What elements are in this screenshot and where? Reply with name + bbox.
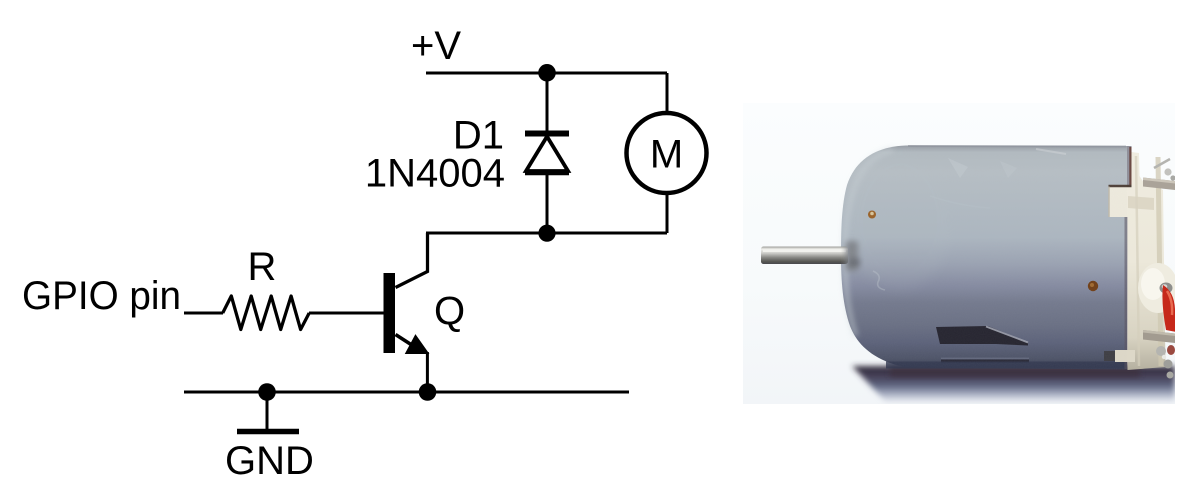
junction: emitter / ground xyxy=(419,383,437,401)
white plastic end cap xyxy=(1109,152,1166,370)
junction: +V / diode node xyxy=(538,64,556,82)
diode D1 xyxy=(525,134,569,174)
photo shadow under motor xyxy=(852,366,1175,402)
svg-text:M: M xyxy=(650,133,683,177)
solder blob top xyxy=(1164,168,1171,175)
can top crimp tab xyxy=(1127,146,1132,187)
svg-text:GPIO pin: GPIO pin xyxy=(22,274,181,318)
svg-text:R: R xyxy=(248,245,277,289)
ground xyxy=(237,392,299,432)
wire: +V rail xyxy=(426,72,667,75)
face rim highlight xyxy=(845,150,893,336)
scuffs / scratches on can xyxy=(873,149,1066,290)
junction: ground symbol tap xyxy=(258,383,276,401)
photo background xyxy=(743,103,1175,404)
junction: diode / collector node xyxy=(538,225,555,242)
bottom rim dark band xyxy=(886,362,1127,369)
motor M xyxy=(627,113,707,193)
wire: GPIO pin to resistor xyxy=(184,312,223,315)
vent line on can bottom xyxy=(941,358,1029,360)
wire: resistor to transistor base xyxy=(309,312,384,315)
contact shadow xyxy=(890,366,1140,377)
terminal solder tail top xyxy=(1154,159,1170,168)
wire: +V rail corner down to motor xyxy=(666,73,669,113)
cap shading lines xyxy=(1136,156,1139,366)
terminal tab top xyxy=(1143,178,1175,191)
cap lower tab xyxy=(1104,351,1115,361)
wire: diode cathode lead xyxy=(546,73,549,133)
recess edge shading xyxy=(1109,185,1132,187)
svg-text:+V: +V xyxy=(411,24,461,68)
wire: motor bottom lead xyxy=(666,193,669,233)
cap centre bushing disc xyxy=(1138,263,1178,313)
red wire xyxy=(1162,285,1176,332)
top edge dark line xyxy=(908,145,1126,148)
terminal tab bottom xyxy=(1143,330,1175,343)
bushing metal pin xyxy=(1160,283,1173,294)
svg-text:GND: GND xyxy=(225,439,314,483)
vent louver lip highlight xyxy=(986,327,1028,343)
wire: collector rail xyxy=(426,232,667,235)
transistor Q xyxy=(384,233,429,392)
wire: ground rail xyxy=(184,391,629,394)
svg-text:1N4004: 1N4004 xyxy=(365,152,505,196)
motor shaft xyxy=(761,247,848,265)
resistor R xyxy=(223,296,310,330)
rust specks xyxy=(868,211,876,219)
motor can silhouette (face + body) xyxy=(841,146,1127,370)
dark red wire stub among solder xyxy=(1167,345,1175,355)
vent slot on can xyxy=(936,326,1028,346)
face subtle lighter sheen xyxy=(848,150,952,290)
grain texture over can xyxy=(841,146,1127,370)
wire: diode anode lead xyxy=(546,173,549,233)
solder blobs bottom xyxy=(1156,346,1166,356)
shaft hub boss xyxy=(846,241,860,271)
can / cap crimp line xyxy=(1125,217,1128,369)
svg-text:Q: Q xyxy=(434,290,465,334)
